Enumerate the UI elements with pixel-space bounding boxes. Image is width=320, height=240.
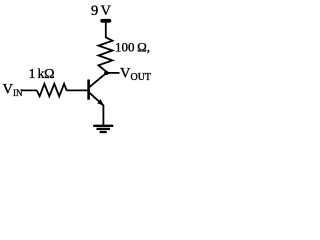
wire Vin to R2 [21, 89, 37, 91]
wire collector to node [89, 73, 107, 88]
svg-text:100 Ω,: 100 Ω, [115, 40, 150, 55]
wire R2 to base [66, 89, 87, 91]
resistor R1 100ohm [99, 37, 113, 72]
svg-text:1 kΩ: 1 kΩ [29, 67, 55, 82]
svg-text:VIN: VIN [3, 82, 23, 98]
power supply terminal 9V [102, 19, 109, 23]
svg-text:9V: 9V [91, 3, 111, 19]
transistor Q1 emitter [89, 92, 104, 105]
transistor Q1 base bar [87, 80, 90, 100]
ground symbol [93, 125, 113, 127]
resistor R2 1k [37, 84, 67, 97]
emitter arrowhead [97, 99, 104, 106]
wire emitter to ground [102, 105, 104, 126]
svg-text:VOUT: VOUT [120, 66, 151, 83]
wire node to Vout [106, 72, 119, 74]
node Vout junction dot [104, 71, 108, 75]
wire supply to R1 [105, 21, 107, 38]
